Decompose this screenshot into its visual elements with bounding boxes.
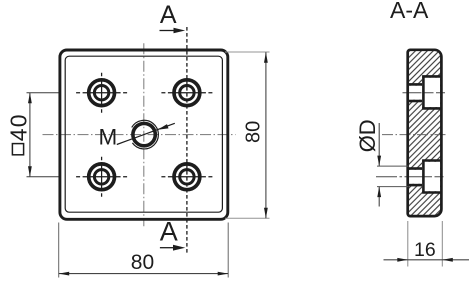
dimension 80 plate width (bottom) xyxy=(59,223,229,278)
centerline vertical (plan view plate axis) xyxy=(143,43,145,226)
plate outer outline xyxy=(60,50,228,219)
dimension square-40 hole pitch (left) xyxy=(6,93,59,177)
svg-text:A: A xyxy=(160,217,178,247)
svg-text:16: 16 xyxy=(414,239,436,261)
counterbored hole bottom-left xyxy=(76,157,127,197)
counterbored hole top-left xyxy=(76,73,127,113)
center tapped hole M xyxy=(132,120,159,149)
section label A bottom with view arrow xyxy=(160,217,186,251)
svg-text:M: M xyxy=(99,124,118,149)
leader line M xyxy=(117,123,175,144)
centerline horizontal (plan view plate axis) xyxy=(43,134,236,136)
svg-text:80: 80 xyxy=(243,121,265,143)
counterbored hole top-right xyxy=(161,80,212,106)
svg-text:40: 40 xyxy=(6,113,32,141)
svg-text:80: 80 xyxy=(131,251,154,274)
section hole bottom: bore slot and counterbore xyxy=(376,161,446,193)
dimension diameter-D bore (left of section) xyxy=(355,119,409,206)
cutting plane line A-A xyxy=(186,27,188,254)
svg-text:A: A xyxy=(160,1,177,29)
dimension 80 plate height (right) xyxy=(225,52,270,218)
dimension 16 plate thickness (below section) xyxy=(384,221,470,267)
svg-text:A-A: A-A xyxy=(390,0,429,23)
counterbored hole bottom-right xyxy=(161,164,212,190)
plate top-face edge line xyxy=(65,56,222,212)
centerline mid (section) xyxy=(382,134,446,136)
section body hatching xyxy=(408,50,442,216)
section outline xyxy=(408,50,442,216)
section hole top: bore slot and counterbore xyxy=(403,76,446,108)
svg-text:ØD: ØD xyxy=(355,119,380,152)
section label A top with view arrow xyxy=(160,1,186,33)
